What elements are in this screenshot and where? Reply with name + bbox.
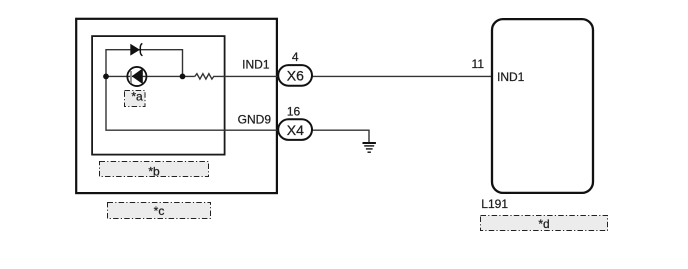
svg-text:GND9: GND9 bbox=[238, 112, 272, 126]
svg-text:X6: X6 bbox=[287, 67, 304, 83]
svg-text:16: 16 bbox=[287, 105, 301, 119]
svg-text:IND1: IND1 bbox=[497, 70, 525, 84]
svg-text:IND1: IND1 bbox=[242, 57, 270, 71]
svg-text:11: 11 bbox=[472, 57, 485, 71]
svg-text:X4: X4 bbox=[287, 122, 304, 138]
svg-text:L191: L191 bbox=[481, 197, 508, 211]
svg-text:4: 4 bbox=[292, 50, 299, 64]
svg-text:*d: *d bbox=[538, 217, 549, 231]
svg-text:*c: *c bbox=[154, 204, 165, 218]
svg-text:*b: *b bbox=[148, 164, 160, 178]
svg-text:*a: *a bbox=[131, 90, 143, 104]
